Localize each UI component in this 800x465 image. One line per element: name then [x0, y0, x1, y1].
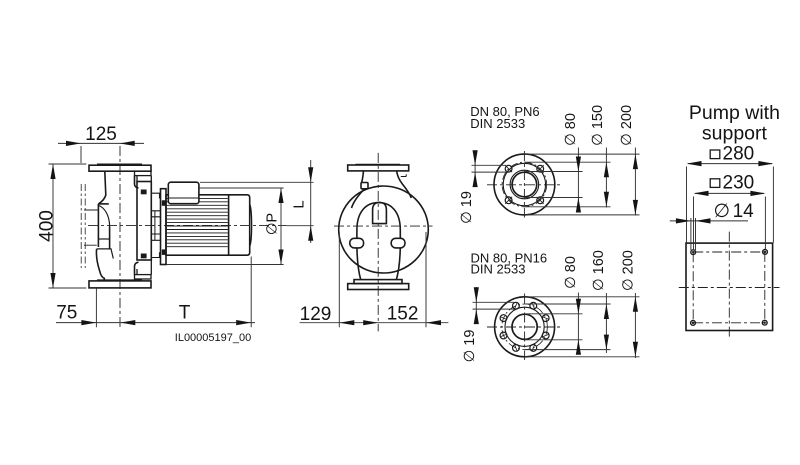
svg-text:∅14: ∅14 — [714, 201, 755, 222]
svg-text:∅ 200: ∅ 200 — [620, 250, 636, 291]
svg-text:129: 129 — [300, 304, 332, 325]
svg-text:support: support — [702, 123, 768, 145]
svg-text:∅ 200: ∅ 200 — [619, 105, 635, 146]
svg-text:∅ 160: ∅ 160 — [591, 250, 607, 291]
svg-text:IL00005197_00: IL00005197_00 — [175, 332, 251, 344]
svg-text:DIN 2533: DIN 2533 — [470, 116, 525, 131]
svg-text:280: 280 — [723, 144, 755, 165]
svg-text:125: 125 — [85, 124, 117, 145]
svg-text:230: 230 — [723, 172, 755, 193]
svg-text:∅ 80: ∅ 80 — [563, 256, 579, 289]
svg-text:∅ 80: ∅ 80 — [563, 113, 579, 146]
svg-text:∅ 19: ∅ 19 — [462, 330, 478, 363]
svg-text:L: L — [292, 200, 308, 208]
svg-text:DIN 2533: DIN 2533 — [471, 262, 526, 277]
svg-text:∅ 150: ∅ 150 — [590, 105, 606, 146]
svg-text:Pump with: Pump with — [689, 102, 780, 124]
svg-text:T: T — [179, 303, 191, 324]
svg-text:152: 152 — [387, 304, 419, 325]
svg-text:75: 75 — [56, 303, 77, 324]
svg-text:∅ 19: ∅ 19 — [459, 191, 475, 224]
svg-text:400: 400 — [37, 210, 58, 242]
svg-text:∅P: ∅P — [265, 213, 281, 235]
